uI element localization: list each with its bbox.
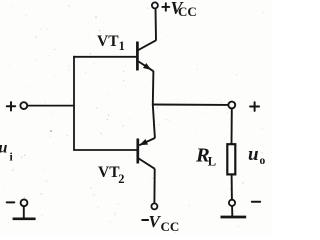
label -Vcc <box>142 212 179 234</box>
wire bus to VT2 base <box>73 149 137 151</box>
input plus sign <box>7 102 15 110</box>
wire VT1 emitter down to output node <box>153 71 155 138</box>
label VT2 <box>98 164 124 186</box>
+Vcc terminal circle <box>152 2 158 8</box>
svg-text:VT: VT <box>98 164 120 181</box>
svg-text:2: 2 <box>118 172 124 186</box>
svg-text:u: u <box>0 140 8 157</box>
input terminal circle <box>20 102 27 109</box>
wire VT1 collector to +Vcc terminal <box>155 8 158 40</box>
label RL <box>195 144 216 168</box>
svg-text:o: o <box>260 155 266 167</box>
svg-text:CC: CC <box>178 4 197 19</box>
resistor RL <box>227 144 235 174</box>
ground left <box>13 217 36 220</box>
transistor VT1 <box>137 40 156 71</box>
svg-text:L: L <box>208 154 216 168</box>
svg-text:CC: CC <box>161 219 180 234</box>
input terminal circle bottom <box>21 199 28 206</box>
wire output terminal to resistor RL <box>231 109 233 145</box>
output terminal circle bottom <box>229 200 235 206</box>
wire output node to output terminal <box>152 104 229 106</box>
wire resistor to lower terminal <box>231 174 233 199</box>
input minus sign <box>7 201 15 203</box>
label +Vcc <box>162 0 196 19</box>
svg-text:VT: VT <box>97 33 119 50</box>
svg-text:1: 1 <box>119 39 125 53</box>
ground right <box>221 216 247 219</box>
wire VT2 collector to -Vcc terminal <box>153 169 155 204</box>
wire bus to VT1 base <box>73 56 136 58</box>
label uo <box>248 144 266 167</box>
output terminal circle top <box>228 102 235 109</box>
wire input to bus <box>27 105 74 107</box>
output plus sign <box>250 102 259 111</box>
svg-text:u: u <box>248 144 259 165</box>
wire lower input terminal to ground <box>23 206 25 218</box>
transistor VT2 <box>138 138 155 169</box>
wire vertical bus <box>73 56 75 150</box>
label VT1 <box>97 33 125 53</box>
label ui <box>0 140 14 164</box>
output minus sign <box>252 201 260 203</box>
wire bottom terminal to ground <box>231 206 233 217</box>
-Vcc terminal circle <box>151 203 157 209</box>
